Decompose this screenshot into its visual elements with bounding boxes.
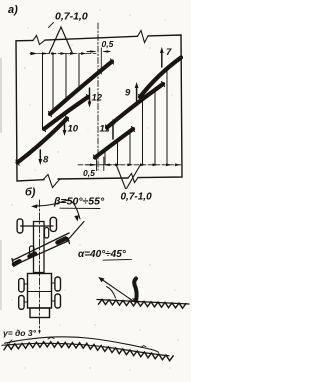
blade D (140, 58, 181, 98)
triangle bottom (leaders) (117, 166, 126, 189)
svg-text:7: 7 (166, 47, 172, 58)
leader tick (49, 23, 54, 28)
dimension 0,5 bottom (86, 164, 95, 166)
grader blade plan (open band) (13, 233, 70, 261)
break bottom edge left (43, 175, 60, 188)
moldboard (134, 279, 136, 302)
beta arc (34, 200, 81, 219)
verticals left group (42, 54, 44, 129)
grader centerline (39, 200, 41, 331)
blade A2 (44, 97, 88, 129)
short vertical right of axis top (100, 48, 102, 74)
svg-text:8: 8 (43, 154, 49, 165)
svg-text:β=50°÷55°: β=50°÷55° (53, 196, 105, 208)
break top edge (33, 36, 45, 45)
grader body (28, 274, 52, 309)
svg-text:γ= до 3°: γ= до 3° (3, 328, 37, 338)
grader: front axle (21, 225, 54, 227)
ground hatch teeth (99, 299, 187, 308)
alpha arc (107, 287, 116, 298)
blade face line (101, 279, 135, 303)
scan speckle (11, 9, 178, 370)
svg-text:0,7-1,0: 0,7-1,0 (55, 11, 88, 23)
ground line (2, 343, 169, 355)
wedge nubs (48, 337, 54, 339)
pass numbers (43, 47, 172, 165)
break top edge right (138, 31, 149, 43)
verticals right group (104, 152, 106, 165)
datum line top (30, 53, 96, 55)
break bottom edge right (128, 174, 138, 183)
svg-text:11: 11 (100, 124, 110, 135)
rear wheels (19, 278, 24, 292)
svg-text:б): б) (25, 187, 36, 199)
gamma angle arc (9, 340, 12, 345)
svg-text:12: 12 (92, 93, 103, 104)
svg-text:9: 9 (125, 88, 131, 99)
datum triangle top (49, 27, 73, 54)
ground hatch teeth (4, 342, 173, 361)
alpha sketch: ground (97, 300, 189, 305)
frame of panel a (16, 40, 44, 181)
svg-text:0,7-1,0: 0,7-1,0 (121, 192, 153, 203)
edge smudges (0, 58, 2, 133)
blade C (107, 84, 163, 128)
gamma wedge top edge (5, 337, 159, 353)
frame beam (34, 222, 45, 273)
svg-text:10: 10 (68, 124, 79, 135)
front wheels (17, 219, 23, 233)
pass arrows (40, 51, 162, 162)
svg-text:α=40°÷45°: α=40°÷45° (78, 249, 127, 260)
datum line bottom (78, 164, 182, 166)
blade E (95, 129, 133, 158)
blade B (50, 62, 112, 115)
svg-text:а): а) (8, 4, 18, 16)
axis dash-dot vertical (97, 23, 99, 170)
blade A1 (18, 119, 68, 163)
svg-text:0,5: 0,5 (83, 168, 95, 178)
svg-text:0,5: 0,5 (102, 39, 114, 49)
